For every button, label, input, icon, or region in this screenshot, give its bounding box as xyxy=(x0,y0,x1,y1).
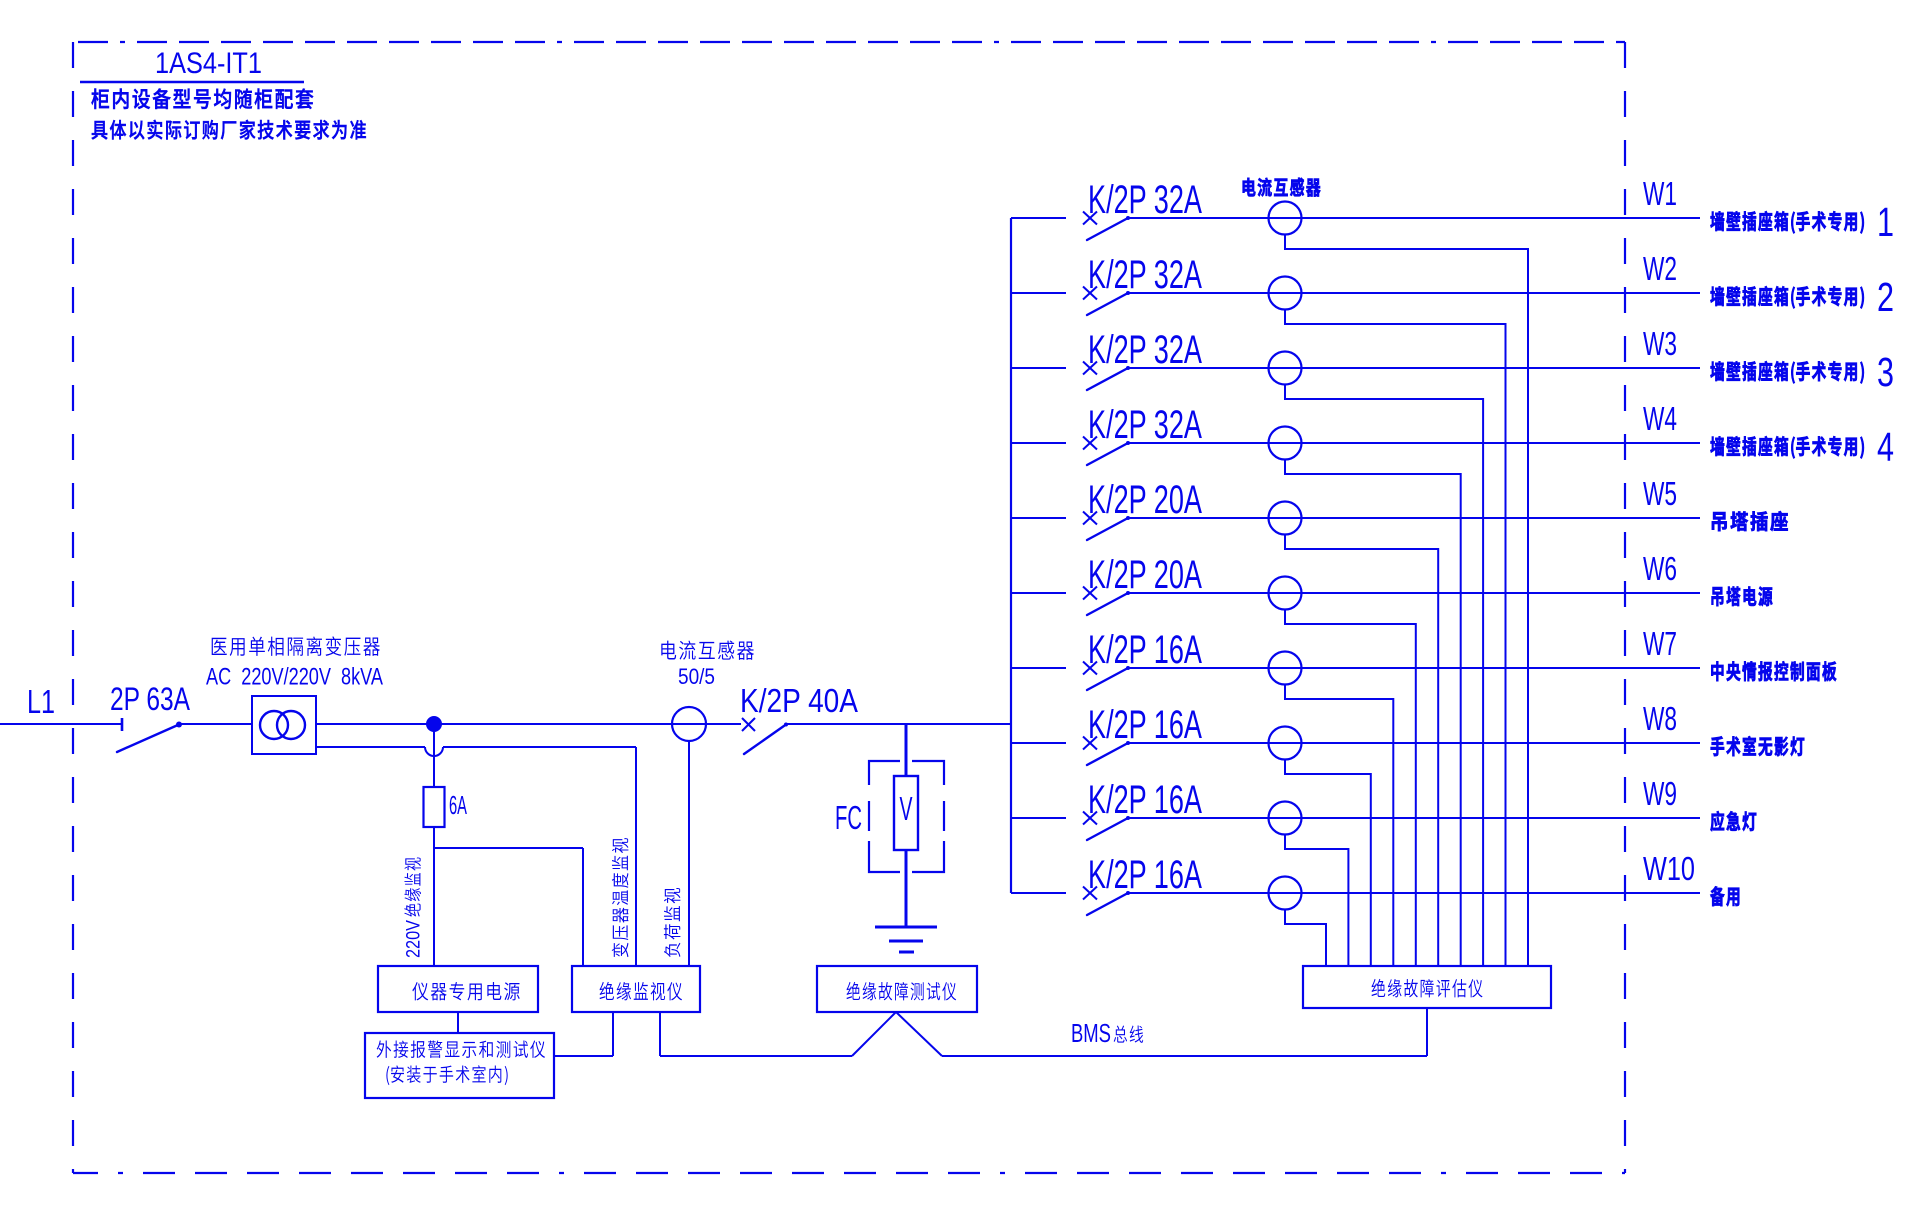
svg-text:W10: W10 xyxy=(1643,850,1695,887)
wire W6 feeder xyxy=(1128,592,1700,594)
breaker W8 blade xyxy=(1087,741,1130,765)
insulation monitor box xyxy=(572,966,700,1012)
breaker W10 label K/2P 16A xyxy=(1088,853,1202,897)
wire load monitor xyxy=(688,741,690,966)
voltmeter dashed enclosure FC xyxy=(869,761,944,872)
transformer T1 winding 1 xyxy=(260,711,288,739)
load description W6 xyxy=(1712,586,1773,606)
load description W7 xyxy=(1711,661,1836,681)
cabinet enclosure dashed border top xyxy=(73,41,1625,43)
load description W3 xyxy=(1710,361,1864,383)
wire CT-W7 sense xyxy=(1285,685,1393,967)
svg-text:1: 1 xyxy=(1877,199,1894,245)
instrument power supply box xyxy=(378,966,538,1012)
wire CT-W5 sense xyxy=(1285,535,1438,967)
wire bus to breaker W9 xyxy=(1011,817,1066,819)
svg-text:W3: W3 xyxy=(1643,325,1677,362)
svg-text:K/2P 20A: K/2P 20A xyxy=(1088,553,1202,597)
label cabinet 1AS4-IT1 xyxy=(155,47,262,80)
breaker W2 blade xyxy=(1087,291,1130,315)
wire CT-W4 sense xyxy=(1285,460,1461,967)
breaker QF1 2P 63A blade xyxy=(117,722,182,753)
svg-text:3: 3 xyxy=(1877,349,1894,395)
breaker W9 contact cross xyxy=(1083,812,1097,825)
wire power box to alarm box xyxy=(457,1012,459,1033)
net label W1 xyxy=(1643,175,1677,212)
current transformer CT-W7 xyxy=(1269,652,1302,685)
external alarm display text line1 xyxy=(377,1040,545,1057)
breaker QF1 2P 63A label xyxy=(110,681,191,717)
svg-text:1AS4-IT1: 1AS4-IT1 xyxy=(155,47,262,80)
wire breaker K/2P 40A to bus xyxy=(786,723,1011,725)
breaker QF2 contact cross xyxy=(742,718,755,731)
transformer T1 rating label xyxy=(206,664,383,691)
BMS bus wire xyxy=(660,1008,1427,1056)
current transformer CT0 xyxy=(672,707,706,741)
load number W2 xyxy=(1877,274,1894,320)
wire CT-W10 sense xyxy=(1285,910,1326,967)
svg-text:W4: W4 xyxy=(1643,400,1677,437)
breaker W1 contact cross xyxy=(1083,212,1097,225)
wire CT-W2 sense xyxy=(1285,310,1506,967)
svg-text:W2: W2 xyxy=(1643,250,1677,287)
wire bus to breaker W3 xyxy=(1011,367,1066,369)
breaker W7 contact cross xyxy=(1083,662,1097,675)
net label W10 xyxy=(1643,850,1695,887)
breaker W4 blade xyxy=(1087,441,1130,465)
wire W5 feeder xyxy=(1128,517,1700,519)
wire fuse to instrument power box xyxy=(433,827,435,966)
bus vertical xyxy=(1010,218,1012,893)
svg-text:L1: L1 xyxy=(27,683,55,720)
wire bus to breaker W7 xyxy=(1011,667,1066,669)
wire monitor to alarm box xyxy=(554,1012,613,1056)
wire W4 feeder xyxy=(1128,442,1700,444)
breaker W6 blade xyxy=(1087,591,1130,615)
net label W5 xyxy=(1643,475,1677,512)
svg-text:W1: W1 xyxy=(1643,175,1677,212)
wire W1 feeder xyxy=(1128,217,1700,219)
current transformer CT-W2 xyxy=(1269,277,1302,310)
load description W10 xyxy=(1710,886,1739,906)
breaker W3 contact cross xyxy=(1083,362,1097,375)
svg-text:K/2P 32A: K/2P 32A xyxy=(1088,403,1202,447)
wire CT-W6 sense xyxy=(1285,610,1416,967)
breaker W3 label K/2P 32A xyxy=(1088,328,1202,372)
wire CT-W3 sense xyxy=(1285,385,1483,967)
fuse FU1 body xyxy=(424,787,445,827)
svg-text:W6: W6 xyxy=(1643,550,1677,587)
breaker QF2 K/2P 40A label xyxy=(740,682,858,719)
vertical label transformer temperature monitor xyxy=(612,838,629,957)
wire bus to breaker W4 xyxy=(1011,442,1066,444)
svg-text:W5: W5 xyxy=(1643,475,1677,512)
wire W9 feeder xyxy=(1128,817,1700,819)
insulation fault tester box xyxy=(817,966,977,1012)
breaker W8 contact cross xyxy=(1083,737,1097,750)
current transformer CT-W8 xyxy=(1269,727,1302,760)
label FC xyxy=(835,799,862,836)
current transformer CT-W4 xyxy=(1269,427,1302,460)
net label W6 xyxy=(1643,550,1677,587)
svg-text:K/2P 16A: K/2P 16A xyxy=(1088,703,1202,747)
instrument power supply text xyxy=(412,982,519,1000)
voltmeter V body xyxy=(894,776,918,850)
current transformer CT-W9 xyxy=(1269,802,1302,835)
current transformer CT-W5 xyxy=(1269,502,1302,535)
breaker W2 label K/2P 32A xyxy=(1088,253,1202,297)
net label W2 xyxy=(1643,250,1677,287)
wire W3 feeder xyxy=(1128,367,1700,369)
ground xyxy=(875,927,937,952)
wire incoming L1 xyxy=(0,723,122,725)
wire transformer temperature monitor xyxy=(316,747,636,966)
wire bus to breaker W8 xyxy=(1011,742,1066,744)
breaker W1 label K/2P 32A xyxy=(1088,178,1202,222)
net label W4 xyxy=(1643,400,1677,437)
vertical label load monitor xyxy=(664,888,681,957)
net label W3 xyxy=(1643,325,1677,362)
svg-text:K/2P 16A: K/2P 16A xyxy=(1088,628,1202,672)
svg-text:6A: 6A xyxy=(449,790,467,820)
svg-text:FC: FC xyxy=(835,799,862,836)
load description W4 xyxy=(1710,436,1864,458)
load description W5 xyxy=(1712,511,1788,531)
wire CT-W9 sense xyxy=(1285,835,1348,967)
breaker W6 contact cross xyxy=(1083,587,1097,600)
current transformer CT-W3 xyxy=(1269,352,1302,385)
breaker QF1 2P 63A contact tick xyxy=(121,718,124,731)
wire W10 feeder xyxy=(1128,892,1700,894)
net label W8 xyxy=(1643,700,1677,737)
wire CT-W8 sense xyxy=(1285,760,1371,967)
svg-text:W7: W7 xyxy=(1643,625,1677,662)
wire breaker to transformer xyxy=(179,723,252,725)
load number W4 xyxy=(1877,424,1894,470)
svg-text:220V: 220V xyxy=(403,920,425,958)
insulation monitor text xyxy=(600,982,683,1001)
current transformer CT-W6 xyxy=(1269,577,1302,610)
external alarm display text line2 xyxy=(386,1065,507,1085)
svg-text:2: 2 xyxy=(1877,274,1894,320)
junction node A xyxy=(426,716,442,732)
breaker W7 blade xyxy=(1087,666,1130,690)
wire tee to insulation monitor xyxy=(434,848,583,966)
wire CT-W1 sense xyxy=(1285,235,1528,967)
fuse FU1 value 6A xyxy=(449,790,467,820)
load description W9 xyxy=(1710,811,1756,831)
breaker W1 blade xyxy=(1087,216,1130,240)
svg-text:V: V xyxy=(900,790,913,827)
insulation fault tester text xyxy=(847,982,957,1001)
breaker W3 blade xyxy=(1087,366,1130,390)
breaker W2 contact cross xyxy=(1083,287,1097,300)
wire voltmeter to ground xyxy=(905,850,908,927)
breaker QF2 blade xyxy=(744,723,788,755)
svg-text:K/2P 32A: K/2P 32A xyxy=(1088,178,1202,222)
svg-text:K/2P 40A: K/2P 40A xyxy=(740,682,858,719)
svg-text:BMS: BMS xyxy=(1071,1018,1111,1048)
svg-text:K/2P 16A: K/2P 16A xyxy=(1088,853,1202,897)
breaker W6 label K/2P 20A xyxy=(1088,553,1202,597)
current transformer CT-W10 xyxy=(1269,877,1302,910)
current transformer CT0 label xyxy=(661,641,754,660)
load description W8 xyxy=(1711,736,1805,756)
breaker W9 blade xyxy=(1087,816,1130,840)
svg-text:2P 63A: 2P 63A xyxy=(110,681,191,717)
transformer T1 box xyxy=(252,696,316,754)
breaker W8 label K/2P 16A xyxy=(1088,703,1202,747)
node L1 label xyxy=(27,683,55,720)
net label W9 xyxy=(1643,775,1677,812)
voltmeter V symbol xyxy=(900,790,913,827)
wire monitor to BMS bus xyxy=(659,1012,661,1056)
net label W7 xyxy=(1643,625,1677,662)
svg-text:W9: W9 xyxy=(1643,775,1677,812)
wire bus to breaker W5 xyxy=(1011,517,1066,519)
wire main to voltmeter xyxy=(905,724,908,776)
load number W3 xyxy=(1877,349,1894,395)
label BMS bus xyxy=(1071,1018,1143,1048)
svg-text:K/2P 32A: K/2P 32A xyxy=(1088,328,1202,372)
svg-text:AC 220V/220V 8kVA: AC 220V/220V 8kVA xyxy=(206,664,383,691)
wire bus to breaker W10 xyxy=(1011,892,1066,894)
cabinet enclosure dashed border left xyxy=(72,42,74,1173)
insulation fault evaluator text xyxy=(1372,979,1483,998)
svg-text:K/2P 32A: K/2P 32A xyxy=(1088,253,1202,297)
breaker W10 blade xyxy=(1087,891,1130,915)
transformer T1 label xyxy=(212,636,380,656)
wire transformer to breaker K/2P 40A xyxy=(316,723,741,725)
wire W2 feeder xyxy=(1128,292,1700,294)
title underline xyxy=(80,81,304,83)
breaker W7 label K/2P 16A xyxy=(1088,628,1202,672)
svg-text:K/2P 20A: K/2P 20A xyxy=(1088,478,1202,522)
transformer T1 winding 2 xyxy=(277,711,305,739)
breaker W9 label K/2P 16A xyxy=(1088,778,1202,822)
wire bus to breaker W2 xyxy=(1011,292,1066,294)
load number W1 xyxy=(1877,199,1894,245)
vertical label 220V insulation monitor xyxy=(403,858,425,958)
current transformer CT-W1 xyxy=(1269,202,1302,235)
breaker W5 contact cross xyxy=(1083,512,1097,525)
breaker W4 contact cross xyxy=(1083,437,1097,450)
external alarm display box xyxy=(365,1033,554,1098)
wire junction to fuse xyxy=(433,724,435,787)
wire bus to breaker W6 xyxy=(1011,592,1066,594)
svg-text:4: 4 xyxy=(1877,424,1894,470)
breaker W5 blade xyxy=(1087,516,1130,540)
insulation fault evaluator box xyxy=(1303,966,1551,1008)
wire W7 feeder xyxy=(1128,667,1700,669)
current transformer branch label xyxy=(1243,178,1321,197)
svg-text:K/2P 16A: K/2P 16A xyxy=(1088,778,1202,822)
cabinet enclosure dashed border right xyxy=(1624,42,1626,1173)
load description W2 xyxy=(1710,286,1864,308)
breaker W10 contact cross xyxy=(1083,887,1097,900)
note line 1 xyxy=(91,88,313,109)
wire bus to breaker W1 xyxy=(1011,217,1066,219)
svg-text:W8: W8 xyxy=(1643,700,1677,737)
wire W8 feeder xyxy=(1128,742,1700,744)
cabinet enclosure dashed border bottom xyxy=(73,1172,1625,1174)
svg-text:50/5: 50/5 xyxy=(678,664,715,689)
breaker W4 label K/2P 32A xyxy=(1088,403,1202,447)
load description W1 xyxy=(1710,211,1864,233)
current transformer CT0 ratio 50/5 xyxy=(678,664,715,689)
breaker W5 label K/2P 20A xyxy=(1088,478,1202,522)
note line 2 xyxy=(92,120,366,140)
